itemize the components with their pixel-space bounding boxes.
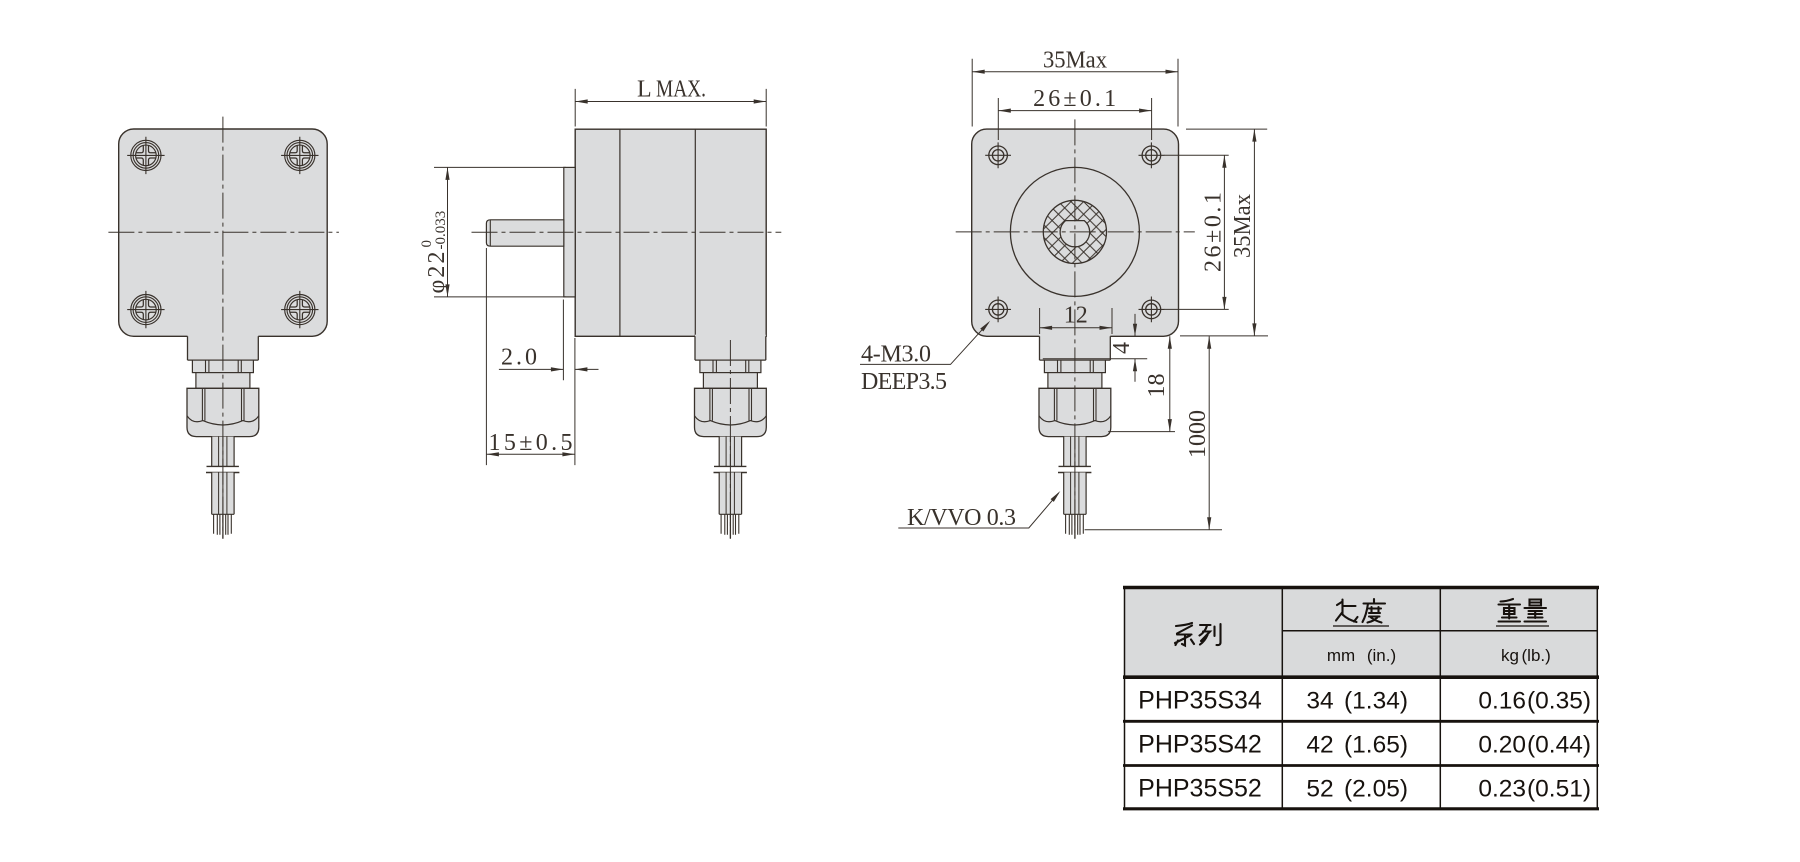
screw bottom-left — [127, 291, 164, 328]
horizontal centerline rear — [956, 231, 1195, 233]
svg-text:DEEP3.5: DEEP3.5 — [861, 369, 947, 395]
svg-text:(0.51): (0.51) — [1527, 775, 1591, 802]
svg-text:0.16: 0.16 — [1478, 687, 1526, 714]
table borders thick — [1123, 586, 1599, 589]
vertical centerline gland side — [729, 340, 731, 539]
dim phi22 — [434, 167, 566, 297]
svg-text:35Max: 35Max — [1043, 48, 1107, 74]
dim 35Max top — [972, 59, 1178, 127]
body section line 2 — [694, 129, 696, 336]
svg-text:4-M3.0: 4-M3.0 — [861, 342, 931, 368]
screw bottom-right — [281, 291, 318, 328]
svg-text:(lb.): (lb.) — [1522, 646, 1551, 665]
header underline changdu — [1333, 625, 1389, 627]
table subheader divider — [1282, 630, 1597, 632]
svg-text:15±0.5: 15±0.5 — [489, 430, 573, 456]
cable gland front — [187, 335, 259, 539]
svg-text:34: 34 — [1306, 687, 1333, 714]
dim 15±0.5 — [486, 248, 575, 465]
dim 12 — [1040, 308, 1112, 334]
shaft chamfer line — [489, 220, 491, 246]
svg-text:2.0: 2.0 — [501, 345, 537, 371]
svg-text:(0.35): (0.35) — [1527, 687, 1591, 714]
svg-text:4: 4 — [1109, 342, 1135, 354]
motor body — [575, 129, 766, 336]
text phi22 tolerance — [419, 211, 450, 294]
mounting hole top-left — [985, 142, 1011, 168]
mounting hole bottom-left — [985, 297, 1011, 323]
dim 2.0 — [499, 300, 599, 381]
svg-text:mm: mm — [1327, 646, 1355, 665]
CJK 重量 — [1499, 599, 1547, 622]
svg-text:MAX.: MAX. — [656, 77, 706, 103]
header underline zhongliang — [1496, 625, 1549, 627]
screw top-right — [281, 137, 318, 174]
dim 26±0.1 top — [998, 98, 1151, 140]
cable gland rear — [1039, 335, 1111, 539]
dim 1000 — [1085, 336, 1222, 529]
shaft — [486, 220, 563, 246]
cable gland side — [695, 335, 767, 539]
table borders vertical — [1125, 588, 1598, 809]
svg-text:-0.033: -0.033 — [433, 211, 449, 250]
svg-text:PHP35S42: PHP35S42 — [1138, 731, 1262, 759]
table text — [1138, 646, 1591, 802]
svg-text:(0.44): (0.44) — [1527, 732, 1591, 759]
svg-text:52: 52 — [1306, 775, 1333, 802]
CJK 系列 — [1175, 623, 1221, 646]
svg-text:0.23: 0.23 — [1478, 775, 1526, 802]
leader 4-M3.0 — [860, 323, 989, 365]
svg-text:PHP35S34: PHP35S34 — [1138, 686, 1262, 714]
dim 4 — [1043, 314, 1147, 382]
pilot circle — [1010, 167, 1139, 296]
horizontal centerline front — [108, 231, 339, 233]
dim L MAX — [575, 89, 766, 127]
svg-text:26±0.1: 26±0.1 — [1033, 86, 1116, 112]
dim 26±0.1 right — [1164, 155, 1229, 309]
horizontal centerline side — [472, 231, 782, 233]
svg-text:L: L — [637, 77, 652, 103]
body section line 1 — [619, 129, 621, 336]
vertical centerline rear — [1074, 119, 1076, 538]
svg-text:PHP35S52: PHP35S52 — [1138, 774, 1262, 802]
rear plate — [972, 129, 1179, 336]
svg-text:kg: kg — [1501, 646, 1519, 665]
vertical centerline front — [222, 117, 224, 539]
shaft hole D-cut — [1060, 221, 1090, 247]
svg-text:26±0.1: 26±0.1 — [1201, 192, 1227, 272]
dim 35Max right — [1180, 129, 1268, 336]
CJK 长度 — [1336, 599, 1385, 623]
front plate — [119, 129, 328, 336]
svg-text:1000: 1000 — [1185, 410, 1211, 458]
hatched shaft boss — [1043, 200, 1106, 263]
pilot boss — [564, 167, 575, 297]
svg-text:12: 12 — [1064, 303, 1088, 329]
svg-text:0.20: 0.20 — [1478, 732, 1526, 759]
svg-text:42: 42 — [1306, 732, 1333, 759]
svg-text:φ22: φ22 — [424, 252, 450, 294]
table header background — [1125, 588, 1598, 678]
svg-text:K/VVO 0.3: K/VVO 0.3 — [907, 505, 1016, 531]
svg-text:(1.34): (1.34) — [1344, 687, 1408, 714]
dim 18 — [1108, 336, 1175, 431]
screw top-left — [127, 137, 164, 174]
svg-text:(in.): (in.) — [1367, 646, 1396, 665]
mounting hole top-right — [1139, 142, 1165, 168]
svg-text:(2.05): (2.05) — [1344, 775, 1408, 802]
svg-text:35Max: 35Max — [1230, 194, 1256, 258]
svg-text:(1.65): (1.65) — [1344, 732, 1408, 759]
svg-text:18: 18 — [1144, 374, 1170, 398]
mounting hole bottom-right — [1139, 297, 1165, 323]
leader K/VVO — [898, 493, 1058, 528]
